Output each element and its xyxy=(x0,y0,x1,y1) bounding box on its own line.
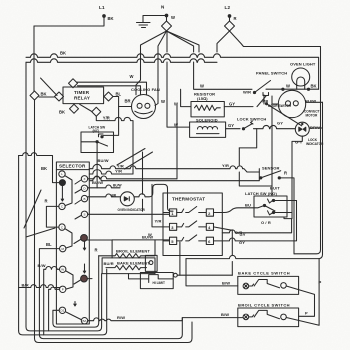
svg-text:BU/R: BU/R xyxy=(104,261,114,266)
svg-text:P: P xyxy=(319,280,322,285)
svg-text:GY: GY xyxy=(228,123,234,128)
svg-text:BR: BR xyxy=(112,193,117,197)
svg-text:BROIL CYCLE SWITCH: BROIL CYCLE SWITCH xyxy=(238,303,290,308)
svg-text:BU/W: BU/W xyxy=(113,183,122,187)
svg-text:W/R: W/R xyxy=(243,90,251,95)
svg-text:W: W xyxy=(286,84,290,89)
svg-text:B/R: B/R xyxy=(22,283,29,288)
svg-text:BR: BR xyxy=(125,98,131,103)
svg-text:R: R xyxy=(45,198,48,203)
svg-text:HI LIMIT: HI LIMIT xyxy=(153,281,165,285)
svg-text:P: P xyxy=(62,288,64,292)
svg-text:BK: BK xyxy=(108,16,114,21)
svg-text:LATCH SW (NO): LATCH SW (NO) xyxy=(245,191,277,196)
svg-text:X: X xyxy=(83,177,85,181)
svg-text:BK: BK xyxy=(41,166,47,171)
svg-text:BL: BL xyxy=(46,242,52,247)
svg-text:D1: D1 xyxy=(60,309,64,313)
svg-text:BK: BK xyxy=(41,92,47,97)
svg-text:BR/W: BR/W xyxy=(310,125,321,130)
svg-text:S: S xyxy=(83,213,85,217)
svg-text:BU/W: BU/W xyxy=(98,158,109,163)
svg-text:Y/R: Y/R xyxy=(222,163,229,168)
svg-text:O / R: O / R xyxy=(261,220,271,225)
svg-text:Y/R: Y/R xyxy=(155,219,162,224)
svg-text:O/R: O/R xyxy=(235,230,242,235)
svg-text:BA: BA xyxy=(82,319,86,323)
svg-text:COOLING FAN: COOLING FAN xyxy=(131,87,160,92)
svg-text:LOCK SWITCH: LOCK SWITCH xyxy=(237,117,266,122)
svg-text:B: B xyxy=(83,197,85,201)
svg-text:B/W: B/W xyxy=(38,263,46,268)
svg-text:W: W xyxy=(61,268,64,272)
svg-text:TIMER: TIMER xyxy=(74,90,90,95)
svg-text:BAKE CYCLE SWITCH: BAKE CYCLE SWITCH xyxy=(238,271,290,276)
svg-text:BK: BK xyxy=(311,83,317,88)
svg-text:SOLENOID: SOLENOID xyxy=(196,118,218,123)
svg-text:BK: BK xyxy=(59,110,65,115)
svg-text:W: W xyxy=(161,99,165,104)
svg-text:BU/T: BU/T xyxy=(270,186,280,191)
svg-text:R/W: R/W xyxy=(117,315,125,320)
svg-text:R: R xyxy=(234,16,237,21)
svg-text:SELECTOR: SELECTOR xyxy=(59,164,86,169)
svg-text:L1: L1 xyxy=(99,5,105,10)
svg-text:Y/R: Y/R xyxy=(115,169,122,174)
svg-text:W: W xyxy=(200,84,204,89)
svg-text:B/W: B/W xyxy=(221,312,229,317)
svg-text:L2: L2 xyxy=(225,5,231,10)
svg-text:P: P xyxy=(305,311,308,316)
svg-text:BU: BU xyxy=(245,203,251,208)
svg-text:GY: GY xyxy=(239,240,245,245)
svg-text:BU/W: BU/W xyxy=(142,235,153,240)
svg-text:OVEN INDICATOR: OVEN INDICATOR xyxy=(118,208,146,212)
svg-text:SENSOR: SENSOR xyxy=(262,166,280,171)
svg-text:DOOR SWITCH: DOOR SWITCH xyxy=(268,104,292,108)
svg-text:R: R xyxy=(95,248,98,253)
svg-text:OVEN LIGHT: OVEN LIGHT xyxy=(290,62,316,67)
svg-text:B/W: B/W xyxy=(222,281,230,286)
svg-text:INDICATOR: INDICATOR xyxy=(306,142,324,146)
svg-text:GY: GY xyxy=(229,102,235,107)
svg-text:PANEL SWITCH: PANEL SWITCH xyxy=(256,71,287,76)
svg-text:(15Ω): (15Ω) xyxy=(197,96,208,101)
svg-text:N: N xyxy=(161,5,165,10)
svg-text:W: W xyxy=(171,15,175,20)
svg-text:BU/W: BU/W xyxy=(92,180,103,185)
svg-text:Y/R: Y/R xyxy=(103,116,110,121)
svg-text:(NC): (NC) xyxy=(93,129,100,133)
svg-text:W: W xyxy=(130,74,134,79)
svg-text:BROIL ELEMENT: BROIL ELEMENT xyxy=(116,249,150,254)
svg-text:MOTOR: MOTOR xyxy=(306,114,319,118)
svg-text:BL: BL xyxy=(116,91,122,96)
svg-text:R: R xyxy=(284,171,287,176)
svg-text:BAKE ELEMENT: BAKE ELEMENT xyxy=(117,261,150,266)
svg-text:RELAY: RELAY xyxy=(74,96,90,101)
svg-text:BK: BK xyxy=(60,51,66,56)
svg-text:THERMOSTAT: THERMOSTAT xyxy=(172,197,205,202)
svg-text:G-Y: G-Y xyxy=(295,140,303,145)
svg-text:BU/W: BU/W xyxy=(305,99,316,104)
svg-text:GY: GY xyxy=(277,121,283,126)
